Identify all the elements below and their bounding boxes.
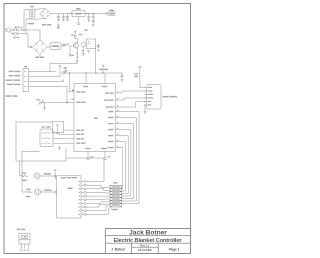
svg-text:Rev 1.2: Rev 1.2 <box>140 244 150 248</box>
svg-text:02-19-2008: 02-19-2008 <box>138 248 152 252</box>
svg-text:Page 1: Page 1 <box>169 248 180 252</box>
svg-text:J. Botner: J. Botner <box>111 248 126 252</box>
svg-text:Jack Botner: Jack Botner <box>129 229 167 236</box>
svg-text:Electric Blanket Controller: Electric Blanket Controller <box>114 238 183 244</box>
